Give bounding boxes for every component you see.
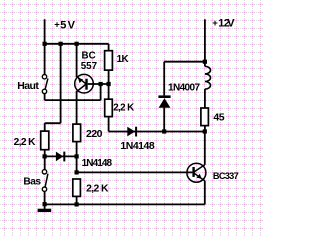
svg-text:1N4148: 1N4148 — [120, 140, 154, 152]
svg-text:1N4148: 1N4148 — [82, 158, 113, 169]
svg-text:V: V — [68, 19, 76, 31]
svg-text:220: 220 — [86, 128, 103, 140]
svg-text:BC337: BC337 — [213, 171, 239, 181]
svg-text:2,2 K: 2,2 K — [14, 137, 37, 148]
svg-text:1K: 1K — [117, 54, 129, 65]
svg-text:Haut: Haut — [17, 80, 39, 92]
svg-text:5: 5 — [60, 19, 66, 31]
svg-text:1N4007: 1N4007 — [168, 83, 200, 94]
svg-text:45: 45 — [213, 112, 224, 124]
svg-text:2,2 K: 2,2 K — [113, 103, 134, 114]
svg-text:V: V — [227, 18, 235, 30]
svg-text:557: 557 — [81, 61, 98, 72]
svg-text:Bas: Bas — [23, 176, 41, 187]
svg-text:2,2 K: 2,2 K — [86, 184, 109, 195]
